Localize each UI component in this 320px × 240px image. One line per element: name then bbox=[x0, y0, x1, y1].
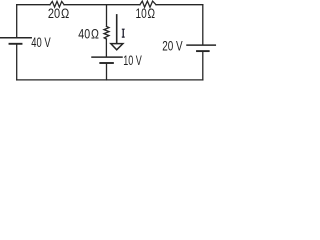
current arrow I head (hollow) bbox=[111, 44, 123, 50]
wire left vertical upper bbox=[16, 5, 18, 37]
resistor 40Ω zigzag bbox=[104, 26, 109, 39]
svg-text:20 V: 20 V bbox=[162, 39, 182, 54]
battery 20V long plate bbox=[187, 44, 215, 46]
resistor 10Ω zigzag bbox=[140, 1, 156, 7]
svg-text:10 Ω: 10 Ω bbox=[136, 6, 156, 21]
label current I bbox=[122, 29, 125, 38]
wire left vertical lower bbox=[16, 45, 18, 80]
wire right vertical lower bbox=[202, 52, 204, 80]
resistor 20Ω zigzag bbox=[50, 1, 64, 7]
battery 40V short plate bbox=[10, 43, 22, 45]
wire top-middle horizontal bbox=[64, 4, 140, 6]
wire right vertical upper bbox=[202, 5, 204, 45]
battery 20V short plate bbox=[197, 50, 209, 52]
wire top-right horizontal bbox=[156, 4, 203, 6]
battery 10V long plate bbox=[92, 56, 122, 58]
wire bottom horizontal bbox=[17, 79, 203, 81]
battery 10V short plate bbox=[100, 62, 113, 64]
svg-text:40 V: 40 V bbox=[31, 35, 50, 50]
svg-text:10 V: 10 V bbox=[123, 53, 142, 68]
svg-text:40 Ω: 40 Ω bbox=[78, 27, 99, 42]
wire top-left horizontal bbox=[17, 4, 50, 6]
svg-text:20 Ω: 20 Ω bbox=[48, 6, 69, 21]
battery 40V long plate bbox=[1, 37, 32, 39]
wire middle vertical lower bbox=[106, 64, 108, 80]
current arrow I shaft bbox=[116, 15, 118, 43]
wire middle vertical upper bbox=[106, 5, 108, 27]
wire middle vertical mid bbox=[105, 39, 107, 56]
